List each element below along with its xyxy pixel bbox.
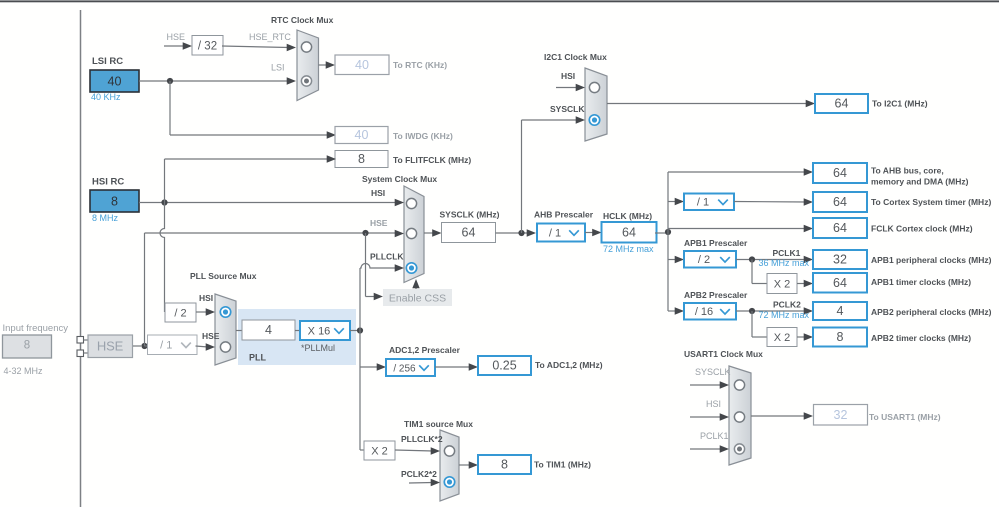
- svg-text:APB1 timer clocks (MHz): APB1 timer clocks (MHz): [871, 277, 971, 287]
- svg-text:64: 64: [835, 97, 849, 111]
- svg-text:HSI: HSI: [706, 399, 721, 409]
- svg-text:64: 64: [833, 166, 847, 180]
- svg-text:40: 40: [108, 75, 122, 89]
- svg-text:/ 16: / 16: [695, 306, 713, 318]
- svg-text:40 KHz: 40 KHz: [91, 92, 121, 102]
- svg-text:72 MHz max: 72 MHz max: [759, 310, 810, 320]
- svg-text:40: 40: [355, 128, 369, 142]
- svg-text:HSE: HSE: [370, 218, 388, 228]
- svg-text:X 2: X 2: [371, 446, 388, 458]
- svg-text:To RTC (KHz): To RTC (KHz): [393, 60, 447, 70]
- svg-text:HSE: HSE: [167, 32, 186, 42]
- svg-text:I2C1 Clock Mux: I2C1 Clock Mux: [544, 52, 607, 62]
- svg-text:64: 64: [833, 276, 847, 290]
- svg-text:Enable CSS: Enable CSS: [389, 293, 446, 305]
- svg-text:HSE_RTC: HSE_RTC: [249, 32, 291, 42]
- svg-text:System Clock Mux: System Clock Mux: [362, 174, 437, 184]
- svg-text:APB1 Prescaler: APB1 Prescaler: [684, 238, 748, 248]
- svg-text:/ 1: / 1: [160, 340, 172, 352]
- svg-text:/ 32: / 32: [198, 40, 217, 52]
- svg-text:SYSCLK: SYSCLK: [695, 367, 731, 377]
- svg-text:PCLK2: PCLK2: [773, 300, 801, 310]
- svg-text:To IWDG (KHz): To IWDG (KHz): [393, 131, 453, 141]
- svg-text:HCLK (MHz): HCLK (MHz): [603, 211, 652, 221]
- svg-text:64: 64: [833, 195, 847, 209]
- svg-text:72 MHz max: 72 MHz max: [603, 244, 654, 254]
- svg-text:*PLLMul: *PLLMul: [301, 343, 335, 353]
- svg-text:0.25: 0.25: [492, 359, 516, 373]
- svg-text:X 2: X 2: [774, 332, 791, 344]
- svg-text:8: 8: [24, 340, 30, 352]
- svg-text:X 16: X 16: [308, 325, 331, 337]
- svg-text:LSI: LSI: [271, 63, 285, 73]
- svg-text:8 MHz: 8 MHz: [92, 213, 119, 223]
- svg-text:4-32 MHz: 4-32 MHz: [4, 366, 44, 376]
- svg-text:To TIM1 (MHz): To TIM1 (MHz): [534, 460, 591, 470]
- svg-text:SYSCLK: SYSCLK: [550, 104, 585, 114]
- svg-text:Input frequency: Input frequency: [3, 323, 69, 334]
- svg-text:PLL: PLL: [249, 353, 267, 363]
- svg-text:HSI RC: HSI RC: [92, 177, 124, 188]
- svg-text:PCLK2*2: PCLK2*2: [401, 469, 437, 479]
- svg-text:APB2 timer clocks (MHz): APB2 timer clocks (MHz): [871, 333, 971, 343]
- svg-text:PCLK1: PCLK1: [773, 248, 801, 258]
- svg-text:8: 8: [111, 195, 118, 209]
- svg-text:64: 64: [622, 225, 636, 239]
- svg-text:4: 4: [837, 304, 844, 318]
- svg-text:APB2 peripheral clocks (MHz): APB2 peripheral clocks (MHz): [871, 307, 992, 317]
- svg-text:32: 32: [834, 408, 848, 422]
- svg-text:PCLK1: PCLK1: [700, 431, 729, 441]
- svg-text:HSI: HSI: [199, 293, 213, 303]
- svg-text:8: 8: [358, 152, 365, 166]
- svg-text:PLL Source Mux: PLL Source Mux: [190, 271, 257, 281]
- svg-text:8: 8: [501, 458, 508, 472]
- svg-text:To FLITFCLK (MHz): To FLITFCLK (MHz): [393, 155, 471, 165]
- svg-text:36 MHz max: 36 MHz max: [759, 258, 810, 268]
- svg-text:/ 2: / 2: [698, 254, 710, 266]
- svg-text:4: 4: [265, 323, 272, 337]
- svg-text:RTC Clock Mux: RTC Clock Mux: [271, 15, 334, 25]
- svg-text:HSE: HSE: [97, 339, 124, 354]
- svg-text:64: 64: [833, 221, 847, 235]
- svg-text:PLLCLK: PLLCLK: [370, 252, 404, 262]
- svg-text:AHB Prescaler: AHB Prescaler: [534, 210, 594, 220]
- svg-text:To ADC1,2 (MHz): To ADC1,2 (MHz): [535, 360, 603, 370]
- svg-text:/ 2: / 2: [174, 308, 186, 320]
- svg-text:FCLK Cortex clock (MHz): FCLK Cortex clock (MHz): [871, 224, 973, 234]
- svg-text:HSI: HSI: [561, 71, 575, 81]
- svg-text:To I2C1 (MHz): To I2C1 (MHz): [872, 99, 928, 109]
- svg-text:PLLCLK*2: PLLCLK*2: [401, 434, 443, 444]
- svg-text:To Cortex System timer (MHz): To Cortex System timer (MHz): [871, 197, 991, 207]
- svg-text:APB1 peripheral clocks (MHz): APB1 peripheral clocks (MHz): [871, 255, 992, 265]
- svg-text:APB2 Prescaler: APB2 Prescaler: [684, 290, 748, 300]
- svg-text:SYSCLK (MHz): SYSCLK (MHz): [440, 210, 500, 220]
- svg-text:HSE: HSE: [202, 331, 220, 341]
- svg-text:/ 256: / 256: [393, 363, 416, 374]
- svg-text:32: 32: [833, 253, 847, 267]
- svg-text:64: 64: [462, 226, 476, 240]
- svg-text:HSI: HSI: [371, 188, 385, 198]
- svg-text:X 2: X 2: [774, 279, 791, 291]
- svg-text:TIM1 source Mux: TIM1 source Mux: [404, 419, 473, 429]
- svg-text:/ 1: / 1: [697, 197, 709, 209]
- svg-text:40: 40: [355, 58, 369, 72]
- svg-text:To USART1 (MHz): To USART1 (MHz): [869, 412, 941, 422]
- svg-text:8: 8: [837, 330, 844, 344]
- svg-text:LSI RC: LSI RC: [92, 56, 123, 67]
- svg-text:ADC1,2 Prescaler: ADC1,2 Prescaler: [389, 345, 461, 355]
- svg-text:memory and DMA (MHz): memory and DMA (MHz): [871, 177, 969, 187]
- svg-text:/ 1: / 1: [549, 227, 561, 239]
- svg-text:To AHB bus, core,: To AHB bus, core,: [871, 166, 944, 176]
- svg-text:USART1 Clock Mux: USART1 Clock Mux: [684, 349, 763, 359]
